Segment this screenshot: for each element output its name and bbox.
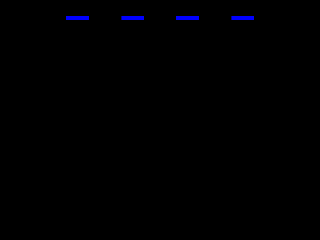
dashed blue wire segment 3: [176, 16, 199, 20]
dashed blue wire segment 2: [121, 16, 144, 20]
dashed blue wire segment 1: [66, 16, 89, 20]
dashed blue wire segment 4: [231, 16, 254, 20]
